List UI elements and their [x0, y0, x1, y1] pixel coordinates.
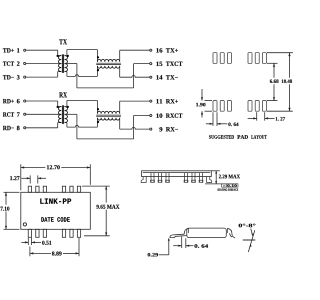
- dimension 1.90 extension lines: [205, 100, 213, 102]
- lead 4 (side view): [184, 173, 186, 182]
- pin label 15 TXCT: [156, 62, 162, 66]
- pin label 16 TX+: [156, 48, 162, 52]
- bottom lead 2 (top view): [36, 229, 39, 237]
- angle flank line: [248, 230, 255, 252]
- dimension text 8.89: [52, 252, 62, 256]
- pin 3 terminal circle: [24, 76, 26, 78]
- dimension text 1.27 (top view): [10, 176, 19, 180]
- pin 10 terminal circle: [150, 114, 152, 116]
- dimension 6.68 extension lines: [267, 62, 278, 64]
- dimension 1.27 extension lines (top view): [29, 175, 31, 183]
- wire TX secondary bottom to choke (jump over CT): [65, 71, 67, 73]
- pad layout: bottom-right pad 2: [255, 101, 259, 112]
- transformer RX secondary winding: [65, 107, 68, 123]
- wire choke RX to pin 11: [119, 101, 121, 114]
- pin label TCT 2: [3, 61, 14, 65]
- bottom lead 1 (top view): [28, 229, 31, 237]
- choke RX winding B phase dot: [97, 121, 99, 123]
- pad layout: top-left pad 1: [213, 53, 217, 64]
- dimension 2.29 MAX extension line: [211, 170, 220, 172]
- bottom lead 5 (top view): [70, 229, 73, 237]
- dimension 0.64 extension lines (end view): [181, 237, 183, 249]
- gull-wing lead left curl (end view): [184, 228, 188, 234]
- pad layout: bottom-right pad 3: [262, 101, 266, 112]
- pin label RD+ 6: [3, 99, 14, 103]
- dimension 10.48 extension lines: [267, 52, 293, 54]
- choke TX winding B phase dot: [97, 69, 99, 71]
- top lead 3 (top view): [43, 186, 46, 192]
- flatness control frame: [222, 184, 238, 187]
- pad layout: bottom-left pad 2: [220, 101, 224, 112]
- seating surface line: [205, 183, 237, 185]
- pad layout: bottom-left pad 1: [213, 101, 217, 112]
- top lead 6 (top view): [77, 186, 80, 192]
- wire TX secondary top to choke: [65, 55, 67, 57]
- pin label 10 RXCT: [156, 113, 162, 117]
- dimension text 6.68: [270, 79, 279, 83]
- pin label TD+ 1: [3, 48, 14, 52]
- common-mode choke TX winding B: [97, 66, 119, 68]
- wire TX secondary center tap: [65, 63, 77, 65]
- marking LINK-PP: [40, 198, 71, 203]
- dimension text 1.90: [196, 103, 205, 107]
- dimension 2.29 MAX line: [215, 171, 217, 184]
- lead 1 (side view): [150, 173, 152, 182]
- wire choke TX to pin 14 (jump over CT riser): [119, 66, 121, 77]
- pad layout: top-right pad 3: [262, 53, 266, 64]
- pad layout: top-right pad 1: [248, 53, 252, 64]
- lead 5 (side view): [191, 173, 193, 182]
- lead 2 (side view): [158, 173, 160, 182]
- dimension 0.64 arrows (end view): [173, 245, 182, 247]
- wire RX secondary center tap: [65, 113, 77, 115]
- end lead right (side view): [207, 177, 212, 183]
- gull-wing lead left (end view): [170, 234, 187, 237]
- angle leader arrow down: [251, 229, 253, 235]
- bottom lead 4 (top view): [62, 229, 65, 237]
- pin 1 indicator circle: [23, 223, 26, 226]
- package body (side view): [142, 171, 212, 177]
- pin 15 terminal circle: [150, 63, 152, 65]
- top lead 1 (top view): [28, 186, 31, 192]
- wire pin 8 to RX primary bottom: [26, 127, 58, 129]
- transformer RX primary phase dot: [57, 106, 59, 108]
- transformer label TX: [59, 39, 67, 44]
- pin label TD− 3: [3, 75, 14, 79]
- choke RX winding A phase dot: [97, 108, 99, 110]
- pin 6 terminal circle: [24, 100, 26, 102]
- transformer RX primary winding: [58, 107, 61, 123]
- dimension text 0.29 (end view): [148, 253, 158, 257]
- dimension text 0.51: [42, 241, 51, 245]
- wire choke RX to pin 9 (jump over CT riser): [119, 118, 121, 129]
- dimension 1.27 arrows: [248, 117, 257, 119]
- dimension 8.89 line: [30, 252, 51, 254]
- common-mode choke RX core: [96, 114, 121, 116]
- dimension 1.90 line: [201, 89, 203, 101]
- wire pin 6 to RX primary top: [26, 100, 58, 102]
- dimension text 12.70: [47, 165, 60, 169]
- marking DATE CODE: [41, 217, 69, 222]
- common-mode choke TX core: [96, 62, 121, 64]
- pin label 9 RX−: [159, 127, 162, 131]
- end lead left (side view): [141, 177, 146, 183]
- pad layout: bottom-left pad 3: [227, 101, 231, 112]
- transformer label RX: [59, 92, 67, 97]
- top lead 4 (top view): [62, 186, 65, 192]
- pad layout: top-left pad 2: [220, 53, 224, 64]
- dimension 0.51 arrows: [21, 241, 28, 243]
- dimension 10.48 line: [289, 53, 291, 78]
- transformer RX secondary phase dot: [67, 106, 69, 108]
- dimension 1.27 extension lines: [256, 112, 258, 120]
- dimension text 2.29 MAX: [219, 175, 240, 179]
- title SUGGESTED PAD LAYOUT: [209, 135, 234, 139]
- dimension text 10.48: [282, 79, 292, 83]
- pin 1 terminal circle: [24, 49, 26, 51]
- bottom lead 6 (top view): [77, 229, 80, 237]
- gull-wing lead right curl (end view): [227, 228, 232, 233]
- pin 7 terminal circle: [24, 113, 26, 115]
- top lead 2 (top view): [36, 186, 39, 192]
- package body (top view): [21, 192, 91, 229]
- pin 9 terminal circle: [150, 128, 152, 130]
- pin label RCT 7: [3, 112, 14, 116]
- lead 3 (side view): [165, 173, 167, 182]
- dimension 12.70 line: [21, 167, 46, 169]
- pin 2 terminal circle: [24, 62, 26, 64]
- angle reference line: [243, 239, 256, 241]
- pin 11 terminal circle: [150, 100, 152, 102]
- dimension text 7.10: [1, 207, 10, 211]
- dimension text 0.64 (end view): [194, 244, 208, 248]
- dimension 12.70 extension lines: [20, 164, 22, 190]
- choke TX winding A phase dot: [97, 56, 99, 58]
- pad layout: bottom-right pad 1: [248, 101, 252, 112]
- package body (end view): [187, 228, 227, 238]
- dimension 9.65 MAX line: [105, 186, 107, 203]
- wire choke TX to pin 16: [119, 50, 121, 62]
- pin label 14 TX−: [156, 75, 162, 79]
- transformer RX core: [61, 105, 63, 124]
- top lead 5 (top view): [70, 186, 73, 192]
- dimension 6.68 line: [273, 63, 275, 78]
- dimension 0.64 extension lines: [212, 112, 214, 126]
- dimension text 1.27: [276, 117, 285, 121]
- dimension 0.51 extension lines: [27, 238, 29, 245]
- dimension 8.89 extension lines: [29, 247, 31, 257]
- transformer TX secondary phase dot: [67, 55, 69, 57]
- dimension text 9.65 MAX: [96, 205, 119, 209]
- common-mode choke RX winding B: [97, 118, 119, 120]
- transformer TX secondary winding: [65, 56, 68, 72]
- pin 16 terminal circle: [150, 49, 152, 51]
- wire RX secondary bottom to choke (jump over CT): [65, 122, 67, 124]
- transformer TX primary phase dot: [57, 55, 59, 57]
- gull-wing lead right (end view): [232, 234, 235, 239]
- dimension 0.29 leader (end view): [168, 239, 170, 255]
- pin label 11 RX+: [156, 99, 162, 103]
- wire pin 3 to TX primary bottom: [26, 76, 58, 78]
- pin label RD− 8: [3, 126, 14, 130]
- angle leader arrow up: [250, 244, 252, 247]
- pad layout: top-right pad 2: [255, 53, 259, 64]
- lead 6 (side view): [199, 173, 201, 182]
- wire pin 2 to TX primary center tap: [26, 63, 61, 65]
- dimension 7.10 extension lines: [4, 191, 20, 193]
- pad layout: top-left pad 3: [227, 53, 231, 64]
- wire pin 1 to TX primary top: [26, 49, 58, 51]
- dimension 9.65 MAX extension lines: [82, 185, 110, 187]
- common-mode choke TX winding A: [97, 59, 119, 61]
- dimension 1.27 arrows (top view): [22, 177, 31, 179]
- wire RX secondary top to choke: [65, 106, 67, 108]
- wire pin 7 to RX primary center tap: [26, 113, 61, 115]
- pin 14 terminal circle: [150, 76, 152, 78]
- common-mode choke RX winding A: [97, 111, 119, 113]
- angle text 0°-8°: [239, 224, 256, 228]
- dimension text 0.64: [228, 123, 238, 127]
- dimension 7.10 line: [5, 192, 7, 205]
- transformer TX core: [61, 54, 63, 73]
- pin 8 terminal circle: [24, 127, 26, 129]
- dimension 0.64 arrows: [206, 123, 213, 125]
- bottom lead 3 (top view): [43, 229, 46, 237]
- transformer TX primary winding: [58, 56, 61, 72]
- note SEATING SURFACE: [218, 189, 239, 191]
